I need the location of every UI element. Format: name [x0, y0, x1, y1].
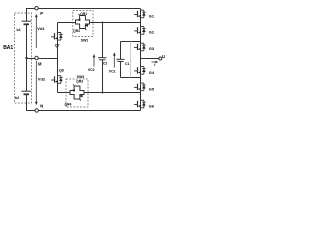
transistor G4 — [134, 67, 146, 75]
svg-text:SW1: SW1 — [81, 38, 89, 42]
ladder backbone — [140, 9, 142, 111]
transistor Q8 — [51, 76, 63, 84]
svg-text:U: U — [162, 54, 165, 59]
middle branch backbone Q7-Q8 — [57, 23, 59, 93]
battery cell b2 plates — [22, 90, 32, 92]
svg-text:G1: G1 — [149, 13, 155, 18]
svg-text:b2: b2 — [15, 96, 19, 100]
svg-text:C1: C1 — [125, 62, 130, 66]
svg-text:P: P — [40, 11, 43, 16]
current arrow i — [152, 61, 158, 63]
junction dot C2 bottom — [102, 92, 104, 94]
node P circle — [35, 7, 38, 10]
junction dot battery mid — [25, 57, 27, 59]
svg-text:C2: C2 — [103, 62, 108, 66]
transistor G5 — [134, 83, 146, 91]
node n3 wire — [121, 77, 141, 79]
svg-text:QR2: QR2 — [73, 29, 80, 33]
output wire — [141, 58, 160, 60]
svg-text:i: i — [154, 63, 155, 67]
svg-text:QR4: QR4 — [65, 103, 72, 107]
svg-text:N: N — [40, 104, 43, 109]
svg-text:G3: G3 — [149, 46, 155, 51]
svg-text:b1: b1 — [17, 28, 21, 32]
arrow Vd2 — [35, 61, 37, 103]
node U circle — [159, 57, 162, 60]
svg-text:M: M — [38, 62, 42, 67]
SW1 box dashed — [73, 11, 93, 37]
transistor Q7 — [51, 33, 63, 41]
junction dot C2 top — [102, 22, 104, 24]
node M circle — [35, 56, 38, 59]
svg-text:Vd1: Vd1 — [37, 26, 45, 31]
capacitor C1 upper lead — [120, 42, 122, 60]
svg-text:G2: G2 — [149, 30, 155, 35]
capacitor C1 lower lead — [120, 62, 122, 78]
transistor G3 — [134, 43, 146, 51]
node n1 wire — [58, 22, 141, 24]
wire battery bottom + N rail — [27, 95, 141, 111]
node N circle — [35, 109, 38, 112]
battery box BA1 dashed — [15, 13, 32, 103]
bidirectional switch SW1 — [76, 14, 90, 30]
transistor G2 — [134, 27, 146, 35]
svg-text:Vd2: Vd2 — [38, 77, 46, 82]
svg-text:G5: G5 — [149, 86, 155, 91]
arrow Vd1 — [35, 16, 37, 48]
transistor G6 — [134, 100, 146, 108]
faint scan line right of C1 — [130, 42, 132, 78]
capacitor C2 upper lead — [102, 23, 104, 58]
bidirectional switch SW2 — [70, 84, 84, 100]
battery cell b1 plates — [22, 20, 32, 22]
node n4 wire through SW2 — [58, 92, 141, 94]
svg-text:Q7: Q7 — [55, 44, 60, 48]
arrow VC2 — [93, 56, 95, 66]
svg-text:QR3: QR3 — [76, 80, 83, 84]
SW2 box dashed — [66, 79, 88, 107]
svg-text:QR1: QR1 — [80, 12, 87, 16]
capacitor C2 lower lead — [102, 60, 104, 92]
M rail — [27, 58, 58, 60]
capacitor C1 plates — [116, 58, 124, 60]
svg-text:BA1: BA1 — [3, 45, 13, 51]
capacitor C2 plates — [98, 57, 106, 59]
svg-text:VC2: VC2 — [88, 68, 95, 72]
node n2 wire — [121, 41, 141, 43]
svg-text:VC1: VC1 — [109, 69, 116, 73]
svg-text:Q8: Q8 — [59, 69, 64, 73]
svg-text:G4: G4 — [149, 70, 155, 75]
wire between battery cells — [26, 25, 28, 92]
svg-text:G6: G6 — [149, 103, 155, 108]
wire battery top to P rail — [27, 9, 141, 22]
svg-text:SW2: SW2 — [77, 75, 85, 79]
transistor G1 — [134, 10, 146, 18]
arrow VC1 — [113, 54, 115, 67]
